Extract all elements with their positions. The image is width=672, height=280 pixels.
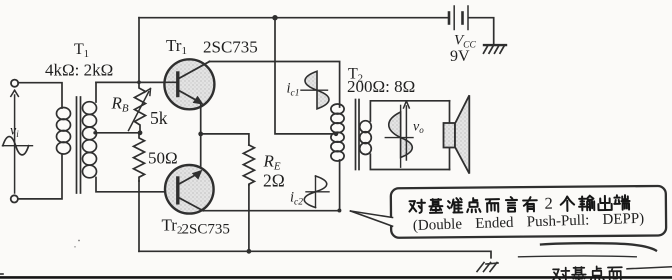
resistor 50 ohm	[134, 133, 145, 181]
wire T2 secondary top to speaker	[370, 101, 449, 121]
ground (top right, chassis)	[484, 45, 507, 53]
v_o measure arrow	[404, 101, 410, 160]
resistor RE 2ohm	[243, 145, 254, 185]
page artifact: specks	[78, 240, 80, 242]
input terminal top	[11, 80, 18, 87]
bottom page text (Chinese, hand-drawn)	[553, 266, 622, 280]
wire emitter node to RE	[201, 134, 249, 145]
input terminal bottom	[11, 195, 18, 202]
resistor RB 5k (variable)	[135, 82, 146, 133]
wire Tr2 collector to T2 primary bottom	[203, 160, 340, 211]
char dui	[553, 268, 570, 280]
wire battery to ground	[469, 18, 494, 45]
wire 50ohm to bottom rail	[138, 181, 140, 251]
wire T1 secondary top to Tr1 base	[96, 82, 177, 102]
wire top supply rail	[139, 17, 448, 19]
wire input top to T1 primary	[18, 83, 62, 108]
source v_i sine	[3, 145, 33, 147]
char dian	[467, 198, 480, 212]
svg-text:2: 2	[544, 194, 553, 213]
char you (have)	[523, 197, 537, 211]
waveform icon i_c1	[301, 71, 329, 109]
char dui	[409, 200, 425, 213]
transformer T1 core	[76, 97, 78, 193]
callout text line1 (Chinese, hand-drawn glyphs)	[409, 192, 630, 215]
node center tap at coil	[93, 131, 96, 134]
svg-text:5k: 5k	[150, 108, 168, 128]
wire RE to bottom rail	[248, 185, 250, 251]
char dian	[590, 266, 604, 280]
page artifact: bottom left dash	[0, 273, 3, 275]
svg-text:2SC735: 2SC735	[182, 222, 230, 238]
char ji (base)	[429, 199, 442, 213]
transistor Tr2	[165, 165, 214, 214]
wire input bottom to T1 primary	[18, 154, 62, 199]
node junction top rail to T2 center tap feed	[272, 15, 277, 20]
svg-text:2SC735: 2SC735	[203, 38, 258, 57]
battery Vcc	[449, 6, 468, 30]
svg-text:200Ω: 8Ω: 200Ω: 8Ω	[347, 77, 415, 96]
transformer T2 primary coil	[331, 104, 344, 161]
transistor Tr1	[164, 59, 214, 109]
char ge	[561, 196, 575, 211]
wire emitter node down to Tr2 emitter	[200, 134, 202, 170]
transformer T2 core	[355, 100, 357, 170]
node base bias junction	[137, 80, 141, 84]
wire T1 center tap	[96, 132, 140, 134]
wire Vcc drop to T2 center tap	[275, 18, 334, 134]
wire T2 secondary bottom to speaker	[370, 154, 449, 169]
transformer T1 primary coil	[57, 108, 71, 155]
svg-text:9V: 9V	[450, 48, 470, 65]
wire T1 secondary bottom to Tr2 base	[96, 178, 177, 192]
node center tap / RB / 50ohm junction	[138, 130, 143, 135]
wire Tr1 base	[96, 81, 177, 83]
arrow of variable resistor RB	[129, 89, 151, 131]
char zhun	[448, 198, 463, 213]
wire bottom rail	[139, 251, 491, 257]
svg-text:2Ω: 2Ω	[263, 171, 285, 191]
node T2 center tap	[334, 132, 338, 136]
char mian (face)	[608, 267, 622, 280]
node emitter junction	[198, 132, 203, 137]
svg-text:50Ω: 50Ω	[148, 149, 178, 168]
page artifact: thin line	[519, 255, 637, 258]
svg-text:4kΩ: 2kΩ: 4kΩ: 2kΩ	[45, 61, 113, 80]
transformer T1 secondary coil	[83, 102, 97, 178]
wire left Vcc drop to base node	[138, 18, 140, 83]
char duan (end)	[614, 195, 630, 210]
speaker	[444, 95, 470, 173]
callout bubble	[391, 186, 666, 238]
page artifact: wavy line under bubble	[541, 243, 656, 250]
waveform icon v_o	[385, 105, 413, 167]
transformer T2 secondary coil	[360, 121, 372, 155]
wire speaker right vertical	[449, 101, 451, 170]
waveform icon i_c2	[304, 176, 329, 208]
page artifact: right edge line	[627, 267, 672, 269]
source v_i arrow	[11, 90, 19, 193]
page artifact: bottom page rule	[0, 276, 672, 279]
wire Tr1 emitter down to emitter node	[200, 105, 202, 134]
char shu (transport)	[579, 196, 594, 211]
node RE bottom rail junction	[247, 249, 252, 254]
char yan (speech)	[506, 197, 517, 212]
wire Tr1 collector to T2 primary top	[210, 62, 340, 108]
char ji	[572, 267, 586, 280]
char chu (out)	[598, 196, 611, 210]
ground (bottom, signal)	[477, 263, 498, 272]
char er (and)	[486, 199, 499, 212]
